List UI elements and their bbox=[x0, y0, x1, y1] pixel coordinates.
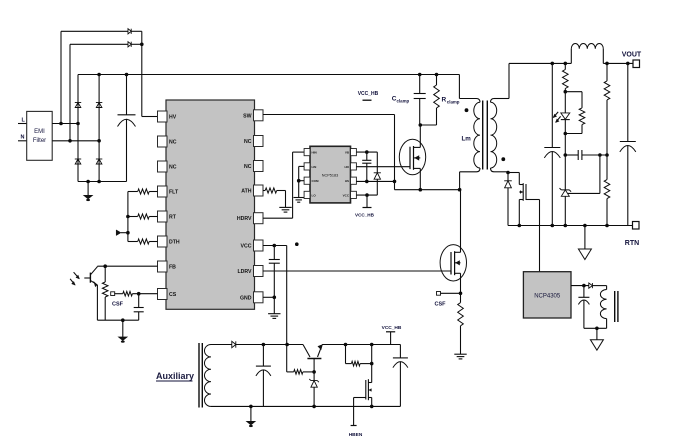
NCP4305 controller U3 bbox=[523, 272, 571, 318]
wire VCC net bbox=[263, 244, 287, 345]
secondary rectifier diode bbox=[504, 173, 512, 226]
signal ground at sense resistor bbox=[454, 354, 466, 359]
svg-text:VCC_HB: VCC_HB bbox=[358, 91, 379, 97]
NPN pass transistor Q3 bbox=[303, 344, 323, 372]
bridge diode upper-right bbox=[96, 75, 102, 141]
wire HO to high-side gate bbox=[356, 166, 410, 168]
wire HV feed vertical bbox=[142, 31, 158, 116]
drive winding core bbox=[615, 291, 618, 322]
wire FB net bbox=[97, 264, 157, 320]
VCC_HB supply flag top bbox=[358, 91, 379, 100]
svg-text:VCC: VCC bbox=[241, 244, 252, 250]
resistor LED bias bbox=[565, 92, 585, 134]
svg-text:HBEN: HBEN bbox=[349, 432, 363, 438]
resistor divider upper bbox=[604, 63, 610, 156]
wire half-bridge switch node bbox=[395, 181, 462, 191]
compensation capacitor bbox=[565, 150, 607, 160]
capacitor NCP4305 bbox=[578, 286, 598, 331]
wire output rail bbox=[509, 62, 633, 66]
wire opto emitter rail bbox=[97, 318, 138, 322]
zener diode aux bbox=[309, 372, 319, 407]
earth ground at aux bbox=[247, 406, 255, 427]
wire N line bbox=[52, 139, 101, 143]
svg-text:HO: HO bbox=[345, 165, 350, 169]
bridge diode lower-left bbox=[75, 124, 81, 182]
series diode NCP4305 bbox=[589, 283, 607, 288]
VCC decoupling capacitor bbox=[269, 246, 280, 298]
svg-text:VOUT: VOUT bbox=[622, 52, 642, 59]
svg-text:NCP5183: NCP5183 bbox=[322, 174, 338, 178]
svg-text:DTH: DTH bbox=[169, 240, 180, 246]
svg-text:NC: NC bbox=[169, 165, 177, 171]
signal ground at GND pin bbox=[268, 297, 280, 318]
resistor at DTH pin bbox=[128, 239, 158, 244]
svg-text:Auxiliary: Auxiliary bbox=[156, 371, 194, 381]
resistor NPN base bbox=[287, 345, 316, 375]
svg-text:clamp: clamp bbox=[397, 99, 410, 104]
wire D2 left drop to N bbox=[69, 44, 71, 141]
CSF test point (power stage) bbox=[435, 292, 463, 308]
transformer primary winding Lm bbox=[462, 102, 481, 168]
bootstrap diode bbox=[374, 173, 381, 195]
wire primary bottom bbox=[460, 168, 480, 190]
wire sync gate to NCP4305 bbox=[526, 200, 540, 272]
svg-text:SW: SW bbox=[243, 113, 251, 119]
svg-text:VCC_HB: VCC_HB bbox=[382, 325, 402, 331]
open ground at NCP4305 bbox=[590, 328, 603, 350]
resistor at FLT pin bbox=[128, 189, 158, 194]
Auxiliary label bbox=[156, 371, 194, 381]
resistor FB to ground bbox=[102, 266, 108, 320]
transformer core bbox=[483, 101, 488, 170]
svg-text:NC: NC bbox=[244, 139, 252, 145]
drive winding bbox=[584, 286, 607, 329]
VOUT terminal bbox=[622, 52, 642, 68]
svg-text:ATH: ATH bbox=[241, 189, 252, 195]
aux rectifier diode bbox=[232, 341, 303, 347]
shunt regulator TL431 bbox=[560, 155, 572, 226]
svg-text:Filter: Filter bbox=[33, 138, 46, 144]
resistor gate drive aux bbox=[346, 345, 374, 366]
wire primary top bbox=[459, 75, 480, 103]
svg-text:VCC_HB: VCC_HB bbox=[355, 213, 375, 218]
svg-text:LIN: LIN bbox=[312, 165, 317, 169]
wire SW node bbox=[263, 115, 395, 182]
HBEN terminal bbox=[349, 398, 366, 439]
svg-text:FLT: FLT bbox=[169, 190, 179, 196]
resistor at RT pin bbox=[126, 214, 157, 219]
wire LIN/COM to ground bbox=[297, 166, 304, 197]
VCC_HB supply flag at driver bbox=[355, 195, 375, 217]
wire return rail bbox=[508, 224, 633, 228]
HV startup diode D1 bbox=[61, 29, 142, 34]
clamp capacitor Cclamp bbox=[392, 75, 426, 126]
resistor divider lower bbox=[604, 155, 610, 226]
wire LDRV to low-side gate bbox=[263, 270, 451, 272]
wire aux bottom rail bbox=[211, 405, 400, 409]
svg-text:GND: GND bbox=[240, 295, 252, 301]
svg-text:HS: HS bbox=[345, 179, 349, 183]
wire aux VCC rail right bbox=[322, 343, 400, 347]
aux filter capacitor bbox=[256, 345, 271, 407]
wire NCP4305 output bbox=[571, 284, 589, 288]
low-side MOSFET Q2 bbox=[440, 190, 466, 294]
wire DC bus bbox=[78, 73, 459, 77]
output capacitor C1 bbox=[544, 63, 560, 225]
output filter inductor bbox=[571, 44, 603, 64]
EMI filter block bbox=[27, 111, 53, 160]
resistor CS filter bbox=[114, 291, 157, 296]
capacitor CS filter bbox=[134, 294, 144, 321]
open ground at return rail bbox=[578, 226, 591, 260]
wire low gate bbox=[450, 271, 452, 275]
optocoupler phototransistor bbox=[70, 266, 97, 287]
svg-text:NCP4305: NCP4305 bbox=[534, 293, 561, 299]
VCC_HB reservoir capacitor bbox=[393, 345, 408, 407]
wire FLT/RT/DTH common rail bbox=[126, 192, 130, 242]
svg-text:NC: NC bbox=[244, 164, 252, 170]
svg-text:HIN: HIN bbox=[312, 151, 317, 155]
svg-text:NC: NC bbox=[169, 140, 177, 146]
svg-text:LDRV: LDRV bbox=[237, 269, 252, 275]
HV startup diode D2 bbox=[70, 42, 144, 47]
wire bridge bottom bbox=[78, 180, 127, 184]
L input terminal bbox=[18, 118, 27, 124]
resistor LED series bbox=[563, 63, 569, 93]
optocoupler LED bbox=[553, 92, 570, 136]
svg-text:N: N bbox=[21, 135, 25, 141]
N input terminal bbox=[18, 135, 27, 141]
wire opto column bbox=[564, 134, 568, 157]
svg-text:HV: HV bbox=[169, 115, 177, 121]
high-side MOSFET Q1 bbox=[399, 125, 425, 190]
stray junction dot bbox=[295, 242, 299, 246]
bridge diode upper-left bbox=[75, 75, 81, 124]
wire comp cap to TL431 ref bbox=[568, 155, 600, 193]
bridge diode lower-right bbox=[96, 141, 102, 182]
VCC_HB supply flag at aux bbox=[382, 325, 402, 345]
wire VB net bbox=[356, 150, 377, 173]
wire secondary bottom bbox=[491, 168, 510, 174]
wire clamp bottom bbox=[419, 123, 437, 127]
clamp resistor Rclamp bbox=[434, 75, 460, 126]
wire HS row bbox=[356, 180, 396, 184]
svg-text:HDRV: HDRV bbox=[237, 216, 252, 222]
wire driver VCC row bbox=[356, 193, 377, 197]
svg-text:COM: COM bbox=[312, 179, 320, 183]
bulk capacitor bbox=[118, 73, 136, 182]
wire GND pin bbox=[263, 296, 276, 300]
svg-text:Lm: Lm bbox=[462, 136, 472, 143]
wire secondary top bbox=[491, 63, 510, 102]
synchronous rectifier MOSFET Q5 bbox=[508, 173, 526, 226]
earth ground at CS network bbox=[119, 320, 127, 343]
svg-text:CSF: CSF bbox=[112, 302, 124, 308]
svg-text:RT: RT bbox=[169, 215, 177, 221]
output capacitor C2 bbox=[620, 63, 636, 225]
svg-text:CS: CS bbox=[169, 292, 177, 298]
svg-text:VCC: VCC bbox=[343, 193, 350, 197]
aux transformer core bbox=[199, 343, 202, 408]
bootstrap capacitor bbox=[362, 152, 371, 181]
svg-text:RTN: RTN bbox=[625, 240, 639, 247]
aux transformer winding bbox=[205, 345, 211, 407]
signal ground at ATH bbox=[279, 191, 291, 213]
svg-text:R: R bbox=[442, 97, 447, 104]
CSF test point (controller) bbox=[111, 292, 124, 308]
RTN terminal bbox=[625, 222, 639, 248]
ground arrow bbox=[116, 230, 128, 236]
wire L line bbox=[52, 122, 80, 126]
small MOSFET Q4 bbox=[366, 345, 372, 407]
svg-text:CSF: CSF bbox=[435, 302, 447, 308]
wire HDRV to HIN bbox=[263, 152, 304, 218]
transformer secondary winding bbox=[491, 102, 506, 168]
main controller IC U1 bbox=[158, 100, 264, 309]
wire D1 left drop to L bbox=[60, 31, 62, 123]
resistor at ATH pin bbox=[263, 188, 286, 193]
half-bridge driver IC U2 bbox=[304, 146, 356, 203]
svg-text:LO: LO bbox=[312, 193, 317, 197]
current sense resistor bbox=[458, 293, 464, 354]
svg-text:EMI: EMI bbox=[34, 129, 45, 135]
signal ground at driver COM bbox=[294, 198, 304, 203]
earth ground at bridge bbox=[84, 182, 92, 202]
svg-text:FB: FB bbox=[169, 265, 176, 271]
svg-text:clamp: clamp bbox=[447, 100, 460, 105]
wire aux top / rectifier bbox=[211, 344, 232, 346]
